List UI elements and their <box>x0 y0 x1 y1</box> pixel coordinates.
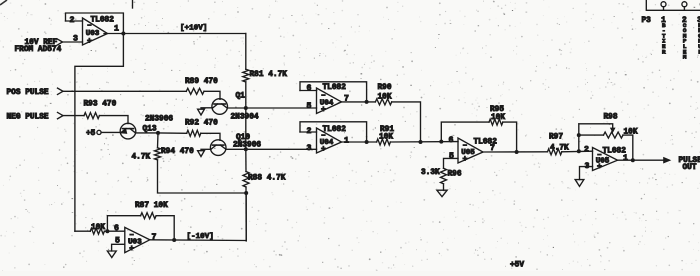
svg-text:10K: 10K <box>624 129 638 137</box>
wire R95 to output leg <box>503 122 517 152</box>
wire R97 to U05b pin2 <box>562 150 593 153</box>
transistor Q1 collector lead <box>222 104 227 108</box>
transistor Q10 circle <box>210 140 226 156</box>
svg-text:6: 6 <box>307 84 312 93</box>
wire U03a output (+10V) to R81 <box>104 33 246 35</box>
wire R94 down and right to -10V rail <box>158 160 247 193</box>
svg-text:4.7K: 4.7K <box>132 153 151 161</box>
junction dot U05b feedback <box>577 133 581 137</box>
wire 10K to pin6 U03b <box>104 230 124 232</box>
svg-text:M: M <box>683 54 687 61</box>
svg-text:10K: 10K <box>91 224 105 232</box>
junction dot Q13 collector node <box>156 131 160 135</box>
wire U03a output down-left rail <box>75 34 124 232</box>
svg-text:R91: R91 <box>380 126 394 134</box>
svg-text:Q1: Q1 <box>236 93 246 101</box>
transistor Q13 circle <box>120 123 136 139</box>
ground U05b pin3 <box>575 180 584 187</box>
wire R81 to Q1 collector node <box>245 82 247 108</box>
junction dot R94 node <box>244 191 248 195</box>
resistor R98 <box>604 132 624 138</box>
resistor R91 <box>377 139 391 145</box>
svg-text:FROM AD574: FROM AD574 <box>15 46 62 54</box>
potentiometer R98 wiper arrow <box>611 128 615 132</box>
svg-text:R93 470: R93 470 <box>84 100 117 108</box>
op-amp U03b feedback wire <box>107 216 140 232</box>
connector P3 pin2 circle <box>682 2 687 7</box>
svg-text:2: 2 <box>584 145 589 154</box>
junction dot U03b pin6 <box>105 229 109 233</box>
wire R90 to summing node <box>392 102 421 142</box>
op-amp U04a feedback wire <box>300 82 367 102</box>
wire pin2 U03a <box>66 20 83 22</box>
resistor R92 <box>187 130 201 136</box>
wire pin6 U04a <box>300 90 317 92</box>
svg-text:2N3906: 2N3906 <box>145 116 173 124</box>
wire R91 to U05a pin6 <box>390 141 458 143</box>
junction dot U05b pin2 <box>577 149 581 153</box>
transistor Q1 emitter arrow <box>198 109 205 115</box>
op-amp U03a <box>83 18 108 45</box>
wire U05b output <box>618 159 664 161</box>
resistor R89 <box>186 88 204 94</box>
junction dot U05a output <box>515 150 519 154</box>
wire NEG PULSE to R93 <box>63 115 84 117</box>
wire stub top edge <box>132 0 134 8</box>
op-amp U04b feedback wire <box>300 122 367 142</box>
op-amp U04b <box>317 128 342 153</box>
wire R92 to Q10 base <box>201 133 220 140</box>
wire pin3 U05b <box>580 167 593 180</box>
wire R87 to output leg <box>156 216 174 240</box>
wire U04b output <box>342 141 377 143</box>
svg-text:R97: R97 <box>549 134 563 142</box>
transistor Q10 emitter arrow <box>198 151 205 157</box>
resistor R81 <box>243 69 249 82</box>
junction dot U03b output <box>172 238 176 242</box>
svg-text:R94 470: R94 470 <box>161 148 194 156</box>
op-amp U03a feedback wire (output to pin 2) <box>66 13 124 34</box>
wire R89 to Q1 base <box>204 91 220 99</box>
svg-text:P3: P3 <box>642 17 652 25</box>
op-amp U03b <box>125 227 150 252</box>
resistor R97 <box>548 149 562 155</box>
ground R96 <box>437 190 447 197</box>
svg-text:R92 470: R92 470 <box>185 119 218 127</box>
junction dot summing node <box>419 140 423 144</box>
junction dot U03a output <box>121 32 125 36</box>
svg-text:3: 3 <box>73 35 78 44</box>
wire +10V down to R81 <box>245 34 247 70</box>
svg-text:3.3K: 3.3K <box>421 169 440 177</box>
svg-text:POS PULSE: POS PULSE <box>7 89 49 97</box>
junction dot U05b output <box>631 158 635 162</box>
junction dot U04a output <box>365 100 369 104</box>
svg-text:[-10V]: [-10V] <box>187 233 214 241</box>
wire R93 to Q13 base <box>99 116 128 124</box>
transistor Q1 circle <box>212 99 228 115</box>
svg-text:2: 2 <box>70 16 75 25</box>
wire U04a output <box>342 101 376 103</box>
wire pin5 U03b to ground <box>112 244 125 251</box>
resistor R90 <box>375 99 391 105</box>
resistor R93 <box>84 113 99 119</box>
resistor R94 <box>155 148 161 160</box>
svg-text:TL082: TL082 <box>323 84 347 92</box>
resistor R88 <box>243 172 249 188</box>
wire Q1 node to Q10 node <box>245 108 247 149</box>
wire R88 to -10V rail <box>245 187 247 241</box>
op-amp U05b <box>593 148 618 171</box>
svg-text:[+10V]: [+10V] <box>180 24 207 32</box>
svg-text:2: 2 <box>307 127 312 136</box>
svg-text:5: 5 <box>307 102 312 111</box>
wire U05a output <box>483 151 548 153</box>
svg-text:1: 1 <box>114 25 119 34</box>
transistor Q10 collector lead <box>220 145 225 149</box>
op-amp U04a <box>317 88 342 114</box>
wire node to R94 <box>157 133 160 148</box>
op-amp U05a <box>458 138 483 163</box>
svg-text:R96: R96 <box>448 170 462 178</box>
svg-text:TL082: TL082 <box>91 17 115 25</box>
wire R96 to ground <box>443 184 445 190</box>
svg-text:5: 5 <box>449 152 454 161</box>
svg-text:R: R <box>662 48 666 55</box>
svg-text:6: 6 <box>114 224 119 233</box>
wire Q10 collector to node <box>226 148 246 150</box>
wire U03b output (-10V) <box>150 239 246 242</box>
transistor Q13 collector lead <box>130 129 136 133</box>
wire pin2 U04b <box>300 131 317 133</box>
svg-text:R90: R90 <box>378 84 392 92</box>
transistor Q13 emitter arrow <box>121 129 127 133</box>
svg-text:+5V: +5V <box>510 262 524 270</box>
svg-text:10K: 10K <box>491 114 505 122</box>
junction dot Q10 collector node <box>244 147 248 151</box>
svg-text:3: 3 <box>307 144 312 153</box>
resistor R87 <box>141 213 157 219</box>
input arrow 10V REF <box>57 39 63 45</box>
svg-text:6: 6 <box>449 136 454 145</box>
op-amp U05b wiper wire <box>579 124 613 135</box>
transistor Q1 emitter wire <box>201 107 212 109</box>
resistor R95 <box>489 119 503 125</box>
svg-text:R89 470: R89 470 <box>185 78 218 86</box>
resistor 10K input U03b <box>90 228 104 234</box>
svg-text:+: + <box>463 155 468 164</box>
op-amp U05a feedback wire <box>441 122 489 141</box>
svg-text:R87 10K: R87 10K <box>135 202 168 210</box>
connector P3 pin1 circle <box>661 2 666 7</box>
wire R98 to output leg <box>623 135 633 160</box>
resistor R96 <box>441 168 447 184</box>
junction dot U05a pin6 <box>439 140 443 144</box>
wire -10V up to R88 <box>245 193 247 241</box>
wire Q13 collector to node <box>136 132 158 134</box>
op-amp U05b feedback lower wire <box>579 135 604 151</box>
svg-text:1: 1 <box>344 137 349 146</box>
wire 10V REF to pin3 <box>63 41 83 43</box>
wire node to U04b pin3 <box>246 148 317 150</box>
output arrow PULSE OUT <box>664 157 671 163</box>
svg-text:+: + <box>129 244 134 253</box>
svg-text:1: 1 <box>623 154 628 163</box>
svg-text:TL082: TL082 <box>323 126 347 134</box>
wire node to U04a pin5 <box>246 107 317 109</box>
wire POS PULSE to R89 <box>63 90 186 92</box>
svg-text:OUT: OUT <box>683 164 697 172</box>
svg-text:R81 4.7K: R81 4.7K <box>250 71 288 79</box>
svg-text:10K: 10K <box>378 93 392 101</box>
transistor Q10 emitter lead <box>211 145 216 149</box>
transistor Q13 base bar <box>123 128 134 130</box>
svg-text:R95: R95 <box>490 106 504 114</box>
svg-text:R88 4.7K: R88 4.7K <box>248 175 286 183</box>
input arrow NEG PULSE <box>58 112 64 118</box>
transistor Q10 emitter wire <box>201 148 211 150</box>
wire +5 to Q13 emitter <box>101 131 120 133</box>
svg-text:+: + <box>597 162 602 171</box>
svg-text:+: + <box>321 105 326 114</box>
connector P3 box <box>646 0 700 10</box>
svg-text:2N3904: 2N3904 <box>231 114 259 122</box>
ground U03b pin5 <box>107 251 116 258</box>
wire node to R92 <box>158 132 187 134</box>
transistor Q1 base bar <box>214 103 225 105</box>
wire Q1 collector to node <box>227 107 246 109</box>
svg-text:+: + <box>321 145 326 154</box>
svg-text:R98: R98 <box>604 114 618 122</box>
transistor Q1 emitter lead <box>212 104 217 108</box>
junction dot U04b output <box>365 140 369 144</box>
node +5 open circle <box>97 130 101 134</box>
wire pin5 U05a <box>444 158 459 168</box>
scan artifact top-left <box>0 0 7 5</box>
wire left rail to 10K <box>75 230 90 232</box>
junction dot Q1 collector node <box>244 106 248 110</box>
svg-text:+: + <box>87 37 92 46</box>
input arrow POS PULSE <box>58 88 64 94</box>
wire Q10 node to R88 <box>245 149 247 171</box>
svg-text:+5: +5 <box>86 130 96 138</box>
transistor Q13 emitter lead <box>121 129 126 133</box>
svg-text:NEG PULSE: NEG PULSE <box>7 114 49 122</box>
transistor Q10 base bar <box>213 144 224 146</box>
svg-text:10K: 10K <box>379 134 393 142</box>
